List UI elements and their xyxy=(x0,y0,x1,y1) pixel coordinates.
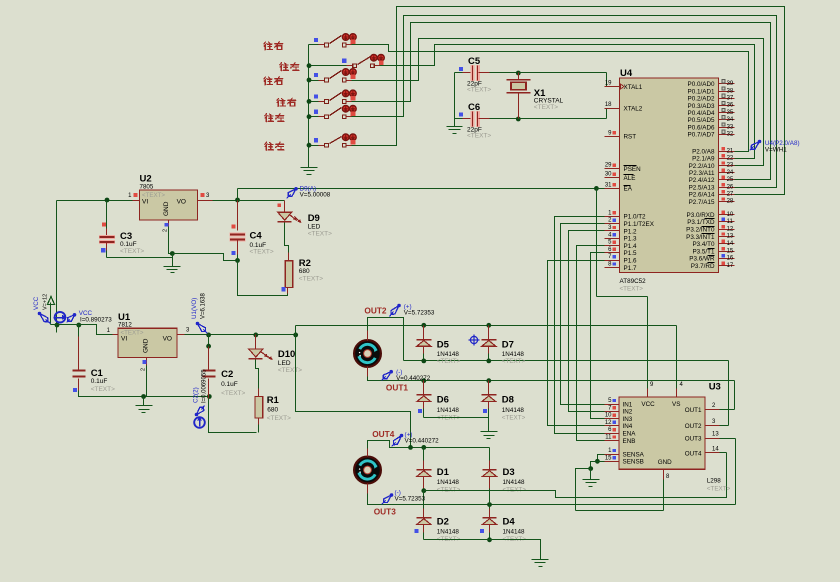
svg-text:P2.1/A9: P2.1/A9 xyxy=(692,156,715,163)
svg-text:IN1: IN1 xyxy=(623,401,633,408)
svg-text:C2: C2 xyxy=(221,369,233,380)
svg-text:1N4148: 1N4148 xyxy=(437,529,460,536)
svg-text:P0.7/AD7: P0.7/AD7 xyxy=(688,132,715,139)
svg-text:P1.7: P1.7 xyxy=(624,265,637,272)
svg-text:1N4148: 1N4148 xyxy=(502,407,525,414)
svg-text:37: 37 xyxy=(727,96,734,102)
svg-text:GND: GND xyxy=(143,338,150,353)
svg-text:<TEXT>: <TEXT> xyxy=(437,358,461,365)
svg-text:P2.3/A11: P2.3/A11 xyxy=(689,170,715,177)
svg-text:P1.6: P1.6 xyxy=(624,258,637,265)
svg-text:36: 36 xyxy=(727,103,734,109)
svg-text:11: 11 xyxy=(605,435,612,441)
svg-text:35: 35 xyxy=(727,110,734,116)
svg-text:PSEN: PSEN xyxy=(624,166,642,173)
svg-text:P2.4/A12: P2.4/A12 xyxy=(689,177,715,184)
svg-text:11: 11 xyxy=(727,219,734,225)
svg-text:VO: VO xyxy=(163,336,172,343)
svg-text:2: 2 xyxy=(141,368,147,371)
svg-text:P0.0/AD0: P0.0/AD0 xyxy=(688,81,715,88)
svg-text:15: 15 xyxy=(727,248,734,254)
svg-text:D4: D4 xyxy=(503,517,516,528)
svg-text:P3.0/RXD: P3.0/RXD xyxy=(687,212,715,219)
svg-text:D8: D8 xyxy=(502,395,514,406)
svg-text:V=6.1638: V=6.1638 xyxy=(201,292,207,319)
svg-text:<TEXT>: <TEXT> xyxy=(267,415,291,422)
svg-text:38: 38 xyxy=(727,88,734,94)
svg-text:<TEXT>: <TEXT> xyxy=(502,358,526,365)
svg-text:GND: GND xyxy=(163,201,170,216)
svg-text:<TEXT>: <TEXT> xyxy=(120,248,144,255)
svg-text:P1.2: P1.2 xyxy=(624,228,637,235)
svg-text:OUT1: OUT1 xyxy=(386,383,409,393)
svg-text:32: 32 xyxy=(727,132,734,138)
svg-text:P1.3: P1.3 xyxy=(624,236,637,243)
svg-text:V=5.00008: V=5.00008 xyxy=(300,192,331,199)
svg-text:D9: D9 xyxy=(308,213,320,224)
svg-text:V=5.72353: V=5.72353 xyxy=(404,310,435,317)
svg-text:SENSA: SENSA xyxy=(623,451,645,458)
svg-text:24: 24 xyxy=(727,170,734,176)
svg-text:LED: LED xyxy=(308,224,321,231)
svg-text:33: 33 xyxy=(727,124,734,130)
svg-text:<TEXT>: <TEXT> xyxy=(620,286,644,293)
svg-text:<TEXT>: <TEXT> xyxy=(467,133,491,140)
svg-text:D3: D3 xyxy=(503,467,515,478)
svg-text:L298: L298 xyxy=(707,478,722,485)
svg-text:25: 25 xyxy=(727,177,734,183)
svg-text:P3.2/INT0: P3.2/INT0 xyxy=(686,227,715,234)
svg-text:13: 13 xyxy=(712,432,719,438)
svg-text:XTAL2: XTAL2 xyxy=(624,105,643,112)
svg-text:P3.6/WR: P3.6/WR xyxy=(689,256,715,263)
svg-text:SENSB: SENSB xyxy=(623,459,644,466)
svg-text:P1.4: P1.4 xyxy=(624,243,637,250)
svg-text:P1.1/T2EX: P1.1/T2EX xyxy=(624,221,655,228)
svg-text:27: 27 xyxy=(727,192,734,198)
svg-text:V=5.72353: V=5.72353 xyxy=(395,496,426,503)
svg-text:12: 12 xyxy=(727,226,734,232)
svg-text:D7: D7 xyxy=(502,340,514,351)
svg-text:<TEXT>: <TEXT> xyxy=(502,415,526,422)
svg-text:C6: C6 xyxy=(468,102,480,113)
svg-text:P0.1/AD1: P0.1/AD1 xyxy=(688,88,715,95)
svg-text:V=+12: V=+12 xyxy=(43,294,49,310)
svg-text:21: 21 xyxy=(727,148,734,154)
svg-text:P3.4/T0: P3.4/T0 xyxy=(692,241,715,248)
svg-text:34: 34 xyxy=(727,117,734,123)
svg-text:U4: U4 xyxy=(620,68,633,79)
svg-text:VI: VI xyxy=(121,336,127,343)
svg-text:I=0.0069055: I=0.0069055 xyxy=(202,369,208,403)
svg-text:15: 15 xyxy=(605,455,612,461)
svg-text:I=0.890273: I=0.890273 xyxy=(80,317,112,324)
svg-text:2: 2 xyxy=(163,229,169,232)
svg-text:<TEXT>: <TEXT> xyxy=(250,249,274,256)
svg-text:12: 12 xyxy=(605,420,612,426)
svg-text:680: 680 xyxy=(267,407,278,414)
svg-text:29: 29 xyxy=(605,163,612,169)
svg-text:680: 680 xyxy=(299,268,310,275)
svg-text:1N4148: 1N4148 xyxy=(503,479,526,486)
svg-text:C4: C4 xyxy=(250,231,263,242)
svg-text:IN2: IN2 xyxy=(623,409,633,416)
svg-text:C5: C5 xyxy=(468,56,481,67)
svg-text:7805: 7805 xyxy=(140,184,154,191)
svg-text:P0.3/AD3: P0.3/AD3 xyxy=(688,103,715,110)
svg-text:<TEXT>: <TEXT> xyxy=(299,276,323,283)
svg-text:P1.0/T2: P1.0/T2 xyxy=(624,214,647,221)
svg-text:1N4148: 1N4148 xyxy=(437,351,460,358)
svg-text:P0.4/AD4: P0.4/AD4 xyxy=(688,110,715,117)
svg-text:ENB: ENB xyxy=(623,438,636,445)
svg-text:30: 30 xyxy=(605,172,612,178)
svg-text:13: 13 xyxy=(727,234,734,240)
svg-text:LED: LED xyxy=(278,360,291,367)
svg-text:P3.3/INT1: P3.3/INT1 xyxy=(686,234,715,241)
svg-text:P0.2/AD2: P0.2/AD2 xyxy=(688,96,715,103)
svg-text:P2.0/A8: P2.0/A8 xyxy=(692,148,715,155)
svg-text:C2(2): C2(2) xyxy=(193,387,200,403)
svg-text:OUT4: OUT4 xyxy=(372,429,395,439)
svg-text:<TEXT>: <TEXT> xyxy=(707,486,731,493)
svg-text:OUT2: OUT2 xyxy=(685,423,702,430)
svg-text:P3.1/TXD: P3.1/TXD xyxy=(687,219,715,226)
svg-text:D5: D5 xyxy=(437,340,450,351)
svg-text:D2: D2 xyxy=(437,517,449,528)
svg-text:OUT2: OUT2 xyxy=(364,305,387,315)
svg-text:22: 22 xyxy=(727,156,734,162)
svg-text:23: 23 xyxy=(727,163,734,169)
svg-text:31: 31 xyxy=(605,182,612,188)
svg-text:GND: GND xyxy=(658,459,672,466)
svg-text:<TEXT>: <TEXT> xyxy=(91,386,115,393)
svg-text:ENA: ENA xyxy=(623,431,637,438)
svg-text:1N4148: 1N4148 xyxy=(503,529,526,536)
svg-text:0.1uF: 0.1uF xyxy=(91,378,108,385)
svg-text:26: 26 xyxy=(727,184,734,190)
svg-text:OUT3: OUT3 xyxy=(374,507,397,517)
svg-text:14: 14 xyxy=(727,241,734,247)
svg-text:RST: RST xyxy=(624,134,637,141)
svg-text:14: 14 xyxy=(712,447,719,453)
svg-text:<TEXT>: <TEXT> xyxy=(467,87,491,94)
svg-text:P2.5/A13: P2.5/A13 xyxy=(689,184,715,191)
svg-text:0.1uF: 0.1uF xyxy=(221,381,238,388)
svg-text:OUT1: OUT1 xyxy=(685,407,702,414)
svg-text:R1: R1 xyxy=(267,395,280,406)
svg-text:0.1uF: 0.1uF xyxy=(120,241,137,248)
svg-text:P3.5/T1: P3.5/T1 xyxy=(692,248,715,255)
svg-text:P0.5/AD5: P0.5/AD5 xyxy=(688,117,715,124)
svg-text:XTAL1: XTAL1 xyxy=(624,84,643,91)
svg-text:P2.6/A14: P2.6/A14 xyxy=(689,192,715,199)
svg-text:7812: 7812 xyxy=(118,322,132,329)
svg-text:1N4148: 1N4148 xyxy=(502,351,525,358)
svg-text:<TEXT>: <TEXT> xyxy=(534,104,558,111)
svg-text:IN4: IN4 xyxy=(623,423,633,430)
svg-text:<TEXT>: <TEXT> xyxy=(278,367,302,374)
svg-text:VCC: VCC xyxy=(33,296,40,310)
svg-text:1N4148: 1N4148 xyxy=(437,479,460,486)
svg-text:U3: U3 xyxy=(709,382,721,393)
svg-text:OUT4: OUT4 xyxy=(685,450,702,457)
svg-text:10: 10 xyxy=(605,413,612,419)
svg-text:VS: VS xyxy=(672,401,680,408)
svg-text:28: 28 xyxy=(727,199,734,205)
svg-text:P0.6/AD6: P0.6/AD6 xyxy=(688,124,715,131)
svg-text:16: 16 xyxy=(727,256,734,262)
svg-text:18: 18 xyxy=(605,102,612,108)
svg-text:<TEXT>: <TEXT> xyxy=(308,231,332,238)
svg-text:P3.7/RD: P3.7/RD xyxy=(691,263,715,270)
svg-text:V=0.440272: V=0.440272 xyxy=(405,438,440,445)
svg-text:P2.7/A15: P2.7/A15 xyxy=(689,199,715,206)
svg-text:D6: D6 xyxy=(437,395,449,406)
svg-text:EA: EA xyxy=(624,186,633,193)
svg-text:39: 39 xyxy=(727,81,734,87)
svg-text:19: 19 xyxy=(605,81,612,87)
svg-text:D1: D1 xyxy=(437,467,450,478)
svg-text:D10: D10 xyxy=(278,349,295,360)
svg-text:AT89C52: AT89C52 xyxy=(620,278,647,285)
svg-text:V=0.440272: V=0.440272 xyxy=(396,375,431,382)
svg-text:OUT3: OUT3 xyxy=(685,435,702,442)
svg-text:<TEXT>: <TEXT> xyxy=(221,390,245,397)
svg-text:10: 10 xyxy=(727,212,734,218)
svg-text:VO: VO xyxy=(177,199,186,206)
svg-text:P2.2/A10: P2.2/A10 xyxy=(689,163,715,170)
svg-text:U1(VO): U1(VO) xyxy=(191,298,198,319)
svg-text:ALE: ALE xyxy=(624,175,636,182)
svg-text:VI: VI xyxy=(142,199,148,206)
svg-text:IN3: IN3 xyxy=(623,416,633,423)
svg-text:P1.5: P1.5 xyxy=(624,250,637,257)
svg-text:1N4148: 1N4148 xyxy=(437,407,460,414)
svg-text:17: 17 xyxy=(727,263,734,269)
svg-text:VCC: VCC xyxy=(641,401,655,408)
svg-text:V=WH1: V=WH1 xyxy=(765,147,787,154)
